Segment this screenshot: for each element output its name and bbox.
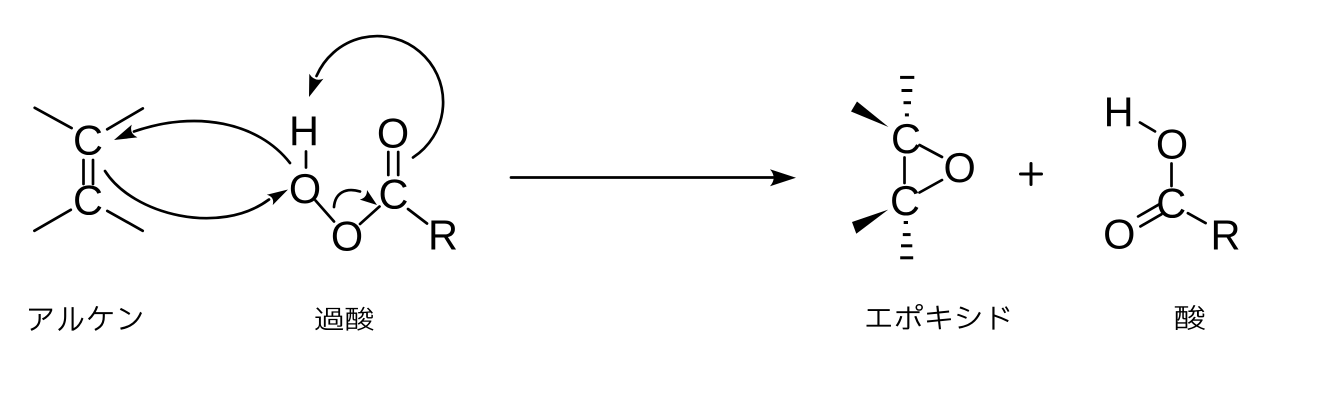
curved arrow O-H to C1 head	[114, 125, 137, 140]
wedge bond on C6	[852, 210, 888, 234]
bond C2 lower-right substituent	[107, 211, 142, 231]
svg-text:C: C	[891, 115, 921, 162]
bond O9-C10	[1170, 164, 1173, 187]
bond O1-O2 peroxide	[316, 201, 335, 222]
svg-text:O: O	[944, 144, 976, 191]
bond C10-R12	[1188, 213, 1206, 223]
svg-text:H: H	[289, 107, 319, 154]
svg-text:R: R	[1211, 211, 1241, 258]
curved arrow C=C to O1 head	[267, 190, 288, 206]
svg-text:O: O	[377, 109, 409, 156]
curved arrow O-H to C1 shaft	[134, 121, 290, 163]
bond C6-O7	[920, 180, 943, 193]
bond H-O1	[305, 152, 308, 168]
label 過酸 (peracid)	[315, 307, 373, 331]
bond C5-C6	[903, 158, 906, 184]
curved arrow big loop shaft (carbonyl O to H)	[317, 36, 444, 157]
double bond C3=O4 line 1	[387, 152, 390, 175]
hash bond on C6 dash 2	[903, 233, 911, 236]
svg-text:C: C	[73, 116, 103, 163]
svg-text:H: H	[1104, 88, 1134, 135]
hash bond on C5 dash 4	[905, 113, 909, 116]
svg-text:C: C	[73, 176, 103, 223]
svg-text:O: O	[331, 212, 363, 259]
double bond C10=O11 line 1	[1138, 204, 1159, 216]
curved arrow O2 to C3 head	[360, 190, 377, 205]
wedge bond on C5	[851, 102, 889, 128]
bond H8-O9	[1140, 123, 1155, 132]
svg-text:C: C	[379, 170, 409, 217]
bond C3-R	[408, 209, 427, 224]
plus sign	[1021, 164, 1042, 185]
double bond C1=C2 line 2	[92, 160, 95, 184]
svg-text:O: O	[289, 165, 321, 212]
reaction arrow head	[770, 169, 796, 186]
bond C5-O7	[920, 145, 943, 157]
bond C2 lower-left substituent	[34, 210, 70, 231]
curved arrow big loop head	[309, 74, 323, 97]
double bond C10=O11 line 2	[1140, 214, 1161, 226]
label アルケン (alkene)	[29, 306, 142, 331]
hash bond on C6 dash 1	[904, 221, 908, 224]
svg-text:O: O	[1103, 211, 1135, 258]
curved arrow C=C to O1 shaft	[105, 171, 269, 218]
double bond C3=O4 line 2	[397, 152, 400, 175]
hash bond on C5 dash 2	[902, 89, 913, 92]
label エポキシド (epoxide)	[866, 304, 1009, 330]
hash bond on C6 dash 4	[900, 256, 913, 259]
svg-text:C: C	[1156, 179, 1186, 226]
bond C1 upper-right substituent	[107, 108, 143, 129]
hash bond on C5 dash 3	[904, 101, 912, 104]
svg-text:O: O	[1156, 120, 1188, 167]
hash bond on C6 dash 3	[901, 244, 912, 247]
svg-text:R: R	[428, 211, 458, 258]
bond C1 upper-left substituent	[35, 108, 72, 128]
double bond C1=C2 line 1	[82, 160, 85, 184]
reaction arrow shaft	[511, 176, 773, 179]
bond O2-C3	[360, 207, 380, 225]
hash bond on C5 dash 1	[900, 76, 914, 79]
curved arrow O2 to C3 shaft	[334, 190, 360, 207]
label 酸 (acid)	[1175, 305, 1205, 330]
